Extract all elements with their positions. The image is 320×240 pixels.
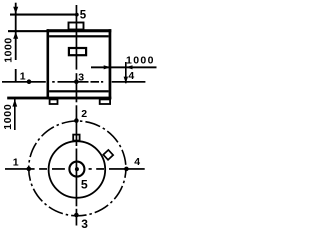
node point 3 (front view dot) (74, 79, 79, 84)
lid handle on top (69, 23, 84, 30)
machine body front view (7, 29, 111, 99)
machine body circle (plan view) (49, 141, 106, 198)
foot right (100, 99, 110, 104)
svg-text:3: 3 (81, 217, 88, 231)
svg-text:1000: 1000 (126, 54, 155, 66)
svg-text:5: 5 (81, 177, 88, 191)
svg-text:4: 4 (128, 70, 134, 82)
front panel rectangle (69, 48, 86, 55)
fitting square rotated (plan view upper right) (103, 150, 113, 160)
node point 3 (plan view dot) (74, 213, 79, 218)
dimension line D2 (right, horizontal) (91, 65, 157, 69)
centerline horizontal (plan view, dash-dot) (5, 168, 145, 170)
svg-text:1000: 1000 (2, 37, 14, 62)
center dot (plan view) (75, 167, 79, 171)
node point 2 (plan view dot) (74, 118, 79, 123)
extension line top edge (to left) (8, 30, 47, 32)
svg-text:2: 2 (81, 108, 87, 120)
dimension line D3 (left lower, vertical) (12, 99, 17, 130)
body inner bottom line (49, 90, 109, 92)
lid opening ring (plan view) (69, 162, 84, 177)
svg-text:4: 4 (134, 156, 140, 168)
svg-text:1: 1 (20, 71, 26, 83)
node point 5 (front view dot) (75, 13, 79, 17)
arrow to point 4 (124, 77, 128, 84)
centerline vertical (front + plan) (76, 5, 78, 70)
measurement surface circle (plan view, dashed) (29, 121, 126, 216)
svg-text:3: 3 (78, 72, 84, 84)
dimension line D1 (left upper, vertical) (13, 3, 18, 60)
foot left (50, 99, 58, 104)
centerline horizontal (front view, dash-dot) (2, 81, 145, 83)
svg-text:5: 5 (80, 10, 87, 22)
extension line point-5 level (10, 14, 78, 16)
body inner top line (49, 35, 109, 37)
svg-text:1000: 1000 (2, 104, 14, 130)
node point 1 (front view dot) (27, 79, 32, 84)
node point 4 (plan view dot) (124, 167, 129, 172)
extension line point 4 (vertical) (125, 62, 127, 83)
fitting square on circle top (plan view) (73, 135, 79, 141)
node point 1 (plan view dot) (27, 167, 32, 172)
extension stub above point 1 (15, 69, 17, 82)
svg-text:1: 1 (13, 157, 19, 169)
